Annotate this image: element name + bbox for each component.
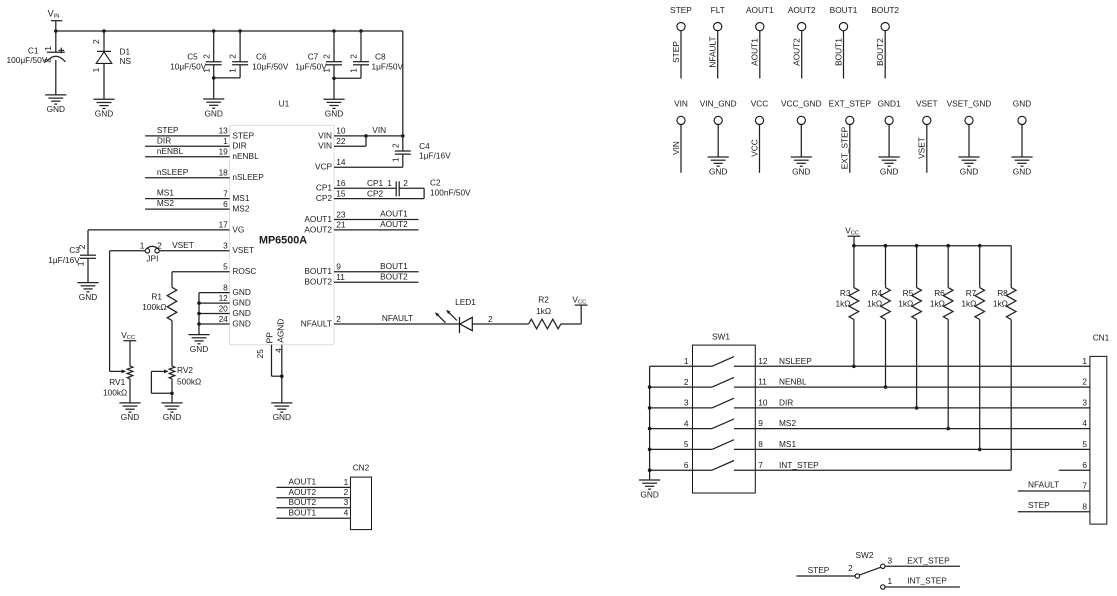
svg-text:2: 2 (488, 314, 493, 324)
svg-text:100kΩ: 100kΩ (103, 388, 127, 398)
svg-text:GND: GND (273, 412, 291, 422)
junction VIN pins (364, 134, 368, 138)
wire SW1 pin 3 left (650, 407, 693, 409)
junction C5/C6 bottoms (212, 76, 216, 80)
svg-text:4: 4 (344, 508, 349, 518)
svg-text:CN1: CN1 (1093, 333, 1110, 343)
svg-text:MS2: MS2 (157, 198, 174, 208)
junction VIN/D1 (102, 29, 106, 33)
svg-text:3: 3 (684, 398, 689, 408)
svg-text:BOUT1: BOUT1 (289, 507, 317, 517)
svg-text:3: 3 (888, 556, 893, 566)
svg-text:NS: NS (120, 56, 132, 66)
wire NFAULT to LED1 (334, 323, 460, 325)
capacitor C6 (239, 31, 241, 62)
svg-text:1: 1 (228, 68, 238, 73)
resistor R1 (167, 287, 177, 320)
junction VIN/C6 (238, 29, 242, 33)
wire SW1 pin 5 left (650, 448, 693, 450)
junction R4/row2 (884, 385, 888, 389)
ground GND (SW1) (639, 479, 660, 481)
svg-text:9: 9 (336, 262, 341, 272)
svg-text:7: 7 (223, 188, 228, 198)
junction GND pin 20 (197, 312, 201, 316)
svg-text:C1: C1 (28, 46, 39, 56)
svg-text:22: 22 (336, 136, 346, 146)
svg-text:VSET: VSET (172, 240, 194, 250)
junction VIN/C5 (212, 29, 216, 33)
wire nENBL stub to U1 (145, 156, 230, 158)
resistor R7 (979, 246, 981, 288)
wire AOUT1 stub (334, 219, 419, 221)
svg-text:1: 1 (91, 67, 101, 72)
svg-text:11: 11 (758, 377, 767, 387)
svg-text:1: 1 (349, 68, 359, 73)
junction R6/row4 (946, 427, 950, 431)
svg-text:21: 21 (336, 220, 346, 230)
svg-text:C2: C2 (430, 178, 441, 188)
svg-text:4: 4 (1082, 418, 1087, 428)
svg-text:GND: GND (95, 109, 113, 119)
svg-text:MS2: MS2 (232, 204, 249, 214)
svg-text:C7: C7 (308, 52, 319, 62)
svg-text:NFAULT: NFAULT (301, 318, 332, 328)
svg-text:VSET: VSET (916, 98, 938, 108)
svg-text:8: 8 (1082, 501, 1087, 511)
junction VCC bus x916 (915, 244, 919, 248)
svg-text:nSLEEP: nSLEEP (232, 172, 264, 182)
svg-text:500kΩ: 500kΩ (177, 377, 201, 387)
svg-text:D1: D1 (120, 46, 131, 56)
svg-text:STEP: STEP (232, 130, 254, 140)
svg-text:9: 9 (758, 418, 763, 428)
junction GND pin 12 (197, 301, 201, 305)
capacitor C7 (333, 31, 335, 62)
svg-text:6: 6 (684, 460, 689, 470)
svg-text:11: 11 (336, 272, 345, 282)
wire CN1 pin 6 stub (1059, 469, 1090, 471)
junction VCC bus x885 (884, 244, 888, 248)
wire MS1 stub to U1 (145, 198, 230, 200)
svg-text:NENBL: NENBL (779, 377, 807, 387)
svg-text:1kΩ: 1kΩ (867, 299, 882, 309)
svg-text:3: 3 (1082, 398, 1087, 408)
potentiometer RV2 (169, 366, 175, 379)
svg-text:GND1: GND1 (878, 98, 901, 108)
resistor R4 (885, 246, 887, 288)
IC U1 MP6500A body (230, 125, 334, 344)
svg-text:2: 2 (91, 39, 101, 44)
wire BOUT1 to CN2 (276, 517, 350, 519)
junction VCC bus x979 (978, 244, 982, 248)
wire row DIR to CN1 (755, 407, 1090, 409)
svg-text:16: 16 (336, 178, 346, 188)
ground GND (C7/C8) (323, 98, 344, 100)
wire nSLEEP stub to U1 (145, 177, 230, 179)
svg-text:1kΩ: 1kΩ (898, 299, 913, 309)
svg-text:CP1: CP1 (316, 183, 333, 193)
ground GND (C5/C6) (203, 98, 224, 100)
svg-text:C5: C5 (187, 52, 198, 62)
svg-text:1μF/50V: 1μF/50V (372, 62, 404, 72)
svg-text:100nF/50V: 100nF/50V (430, 188, 471, 198)
svg-text:GND: GND (640, 489, 658, 499)
wire VIN bus drop to U1 (402, 31, 404, 136)
svg-text:BOUT1: BOUT1 (304, 266, 332, 276)
svg-text:VSET: VSET (232, 245, 254, 255)
svg-text:1: 1 (344, 477, 349, 487)
svg-text:5: 5 (1082, 439, 1087, 449)
capacitor C4 (402, 136, 404, 151)
svg-text:24: 24 (219, 314, 229, 324)
svg-text:AOUT1: AOUT1 (304, 214, 332, 224)
wire U1 GND pin 24 (199, 323, 230, 325)
junction GND pin 24 (197, 322, 201, 326)
wire row MS2 to CN1 (755, 428, 1090, 430)
svg-text:VIN_GND: VIN_GND (700, 98, 737, 108)
svg-text:2: 2 (684, 377, 689, 387)
svg-text:1kΩ: 1kΩ (930, 299, 945, 309)
wire EXT_STEP from SW2 (885, 565, 960, 567)
capacitor C8 (360, 31, 362, 62)
wire ROSC to R1 (172, 271, 230, 273)
wire CP2 stub (334, 198, 424, 200)
svg-text:R1: R1 (151, 292, 162, 302)
switch SW1 body (693, 345, 756, 493)
svg-text:GND: GND (204, 108, 222, 118)
svg-text:1: 1 (888, 576, 893, 586)
resistor R2 (529, 319, 561, 329)
svg-text:1: 1 (223, 136, 228, 146)
svg-text:CP1: CP1 (367, 178, 384, 188)
svg-text:2: 2 (336, 314, 341, 324)
svg-text:10μF/50V: 10μF/50V (252, 62, 289, 72)
svg-text:STEP: STEP (670, 5, 692, 15)
svg-text:GND: GND (47, 104, 65, 114)
junction VIN/C4 (401, 134, 405, 138)
svg-text:10: 10 (758, 398, 768, 408)
junction VIN/C1 (54, 29, 58, 33)
svg-text:1μF/50V: 1μF/50V (295, 62, 327, 72)
svg-text:BOUT1: BOUT1 (380, 261, 408, 271)
junction R3/row1 (852, 365, 856, 369)
svg-text:AOUT2: AOUT2 (304, 224, 332, 234)
svg-text:1kΩ: 1kΩ (536, 306, 551, 316)
junction SW1 bus pin 5 (648, 448, 652, 452)
svg-text:1: 1 (43, 46, 53, 51)
svg-text:12: 12 (219, 293, 229, 303)
svg-text:BOUT2: BOUT2 (289, 497, 317, 507)
svg-text:STEP: STEP (157, 125, 179, 135)
ground GND (RV2) (161, 402, 182, 404)
svg-text:VIN: VIN (318, 130, 332, 140)
svg-text:BOUT1: BOUT1 (833, 38, 843, 66)
wire STEP stub to U1 (145, 135, 230, 137)
svg-text:2: 2 (1082, 377, 1087, 387)
svg-text:GND: GND (232, 298, 250, 308)
switch SW1 pole 3 (693, 407, 713, 409)
svg-text:LED1: LED1 (455, 297, 476, 307)
svg-text:BOUT2: BOUT2 (871, 5, 899, 15)
wire C6 bottom to C5 (214, 77, 240, 79)
junction VIN/C8 (359, 29, 363, 33)
svg-text:20: 20 (219, 303, 229, 313)
svg-text:R5: R5 (903, 288, 914, 298)
svg-text:15: 15 (336, 188, 346, 198)
svg-text:5: 5 (223, 262, 228, 272)
LED1 emission arrow 2 (437, 314, 446, 323)
svg-text:RV1: RV1 (109, 377, 125, 387)
ground GND (AGND) (271, 402, 292, 404)
ground GND (C1) (45, 94, 66, 96)
svg-text:INT_STEP: INT_STEP (907, 576, 947, 586)
wire C8 bottom to C7 (334, 77, 361, 79)
svg-text:6: 6 (223, 199, 228, 209)
svg-text:PP: PP (265, 332, 275, 344)
wire row NSLEEP to CN1 (755, 365, 1090, 367)
capacitor C5 (213, 31, 215, 62)
wire AOUT2 stub (334, 229, 419, 231)
svg-text:5: 5 (684, 439, 689, 449)
ground GND (TP GND1) (879, 156, 900, 158)
svg-text:AOUT1: AOUT1 (750, 38, 760, 66)
svg-text:AOUT2: AOUT2 (289, 487, 317, 497)
svg-text:12: 12 (758, 356, 768, 366)
svg-text:2: 2 (344, 487, 349, 497)
svg-text:1kΩ: 1kΩ (836, 299, 851, 309)
svg-text:17: 17 (219, 220, 229, 230)
svg-text:SW2: SW2 (856, 550, 874, 560)
svg-text:R3: R3 (840, 288, 851, 298)
svg-text:DIR: DIR (157, 135, 171, 145)
switch SW2 (855, 574, 859, 578)
svg-text:1μF/16V: 1μF/16V (48, 255, 80, 265)
svg-text:8: 8 (758, 439, 763, 449)
ground GND (D1) (93, 98, 114, 100)
svg-text:6: 6 (1082, 460, 1087, 470)
wire BOUT2 stub (334, 281, 419, 283)
svg-text:NFAULT: NFAULT (382, 313, 413, 323)
switch SW1 pole 5 (693, 448, 713, 450)
svg-text:AOUT1: AOUT1 (289, 477, 317, 487)
junction PP/AGND (280, 374, 284, 378)
svg-text:AOUT1: AOUT1 (746, 5, 774, 15)
svg-text:1: 1 (1082, 356, 1087, 366)
svg-text:R6: R6 (934, 288, 945, 298)
wire U1 PP pin (271, 345, 273, 377)
svg-text:NSLEEP: NSLEEP (779, 356, 812, 366)
svg-text:3: 3 (223, 241, 228, 251)
svg-text:1: 1 (390, 157, 400, 162)
svg-text:GND: GND (232, 308, 250, 318)
wire JP1 to U1 VSET (159, 250, 229, 252)
svg-text:AGND: AGND (275, 319, 285, 343)
svg-text:MP6500A: MP6500A (259, 235, 307, 247)
junction C7/C8 bottoms (332, 77, 336, 81)
svg-text:1kΩ: 1kΩ (961, 299, 976, 309)
ground GND (C3) (77, 282, 98, 284)
wire AOUT1 to CN2 (276, 486, 350, 488)
svg-text:GND: GND (232, 287, 250, 297)
svg-text:STEP: STEP (1028, 500, 1050, 510)
svg-text:100kΩ: 100kΩ (142, 302, 166, 312)
diode D1 (103, 31, 105, 51)
led LED1 (459, 317, 461, 333)
svg-text:AOUT2: AOUT2 (788, 5, 816, 15)
svg-text:BOUT1: BOUT1 (830, 5, 858, 15)
ground GND (TP VSET_GND) (958, 156, 979, 158)
junction SW1 bus pin 2 (648, 385, 652, 389)
svg-text:nSLEEP: nSLEEP (157, 167, 189, 177)
wire CN1 pin 7 stub (NFAULT) (1018, 490, 1090, 492)
junction SW1 bus pin 4 (648, 427, 652, 431)
ground GND (TP GND) (1011, 156, 1032, 158)
wire MS2 stub to U1 (145, 208, 230, 210)
svg-text:GND: GND (1013, 166, 1031, 176)
capacitor C1 (55, 31, 57, 52)
svg-text:10μF/50V: 10μF/50V (170, 62, 207, 72)
svg-text:GND: GND (325, 109, 343, 119)
svg-text:10: 10 (336, 126, 346, 136)
svg-text:VIN: VIN (372, 125, 386, 135)
junction VCC/R3 (852, 244, 856, 248)
wire U1 VCP to C4 (334, 166, 403, 168)
wire SW1 pin 1 left (650, 365, 693, 367)
svg-text:R8: R8 (997, 288, 1008, 298)
svg-text:STEP: STEP (671, 41, 681, 63)
wire U1 VIN pin 22 (334, 145, 366, 147)
svg-text:DIR: DIR (232, 141, 246, 151)
ground GND (TP VCC_GND) (791, 156, 812, 158)
wire U1 GND pins bus (198, 293, 200, 335)
wire U1 AGND pin (281, 345, 283, 403)
svg-text:BOUT2: BOUT2 (304, 277, 332, 287)
svg-text:GND: GND (190, 344, 208, 354)
svg-text:VCC_GND: VCC_GND (781, 98, 822, 108)
svg-text:GND: GND (1013, 98, 1031, 108)
svg-text:1μF/16V: 1μF/16V (419, 151, 451, 161)
svg-text:23: 23 (336, 209, 346, 219)
svg-text:BOUT2: BOUT2 (380, 271, 408, 281)
svg-text:NFAULT: NFAULT (1028, 480, 1059, 490)
svg-text:4: 4 (684, 418, 689, 428)
wire C2 to CP2 wrap (399, 187, 424, 189)
svg-text:R4: R4 (871, 288, 882, 298)
svg-text:VSET_GND: VSET_GND (947, 98, 992, 108)
svg-text:2: 2 (349, 54, 359, 59)
switch SW1 pole 4 (693, 428, 713, 430)
wire SW1 pin 2 left (650, 386, 693, 388)
potentiometer RV1 (127, 366, 133, 379)
svg-text:1: 1 (387, 178, 392, 188)
svg-text:INT_STEP: INT_STEP (779, 460, 819, 470)
svg-text:25: 25 (255, 349, 265, 359)
svg-text:100μF/50V: 100μF/50V (7, 55, 48, 65)
svg-text:18: 18 (219, 168, 229, 178)
svg-text:GND: GND (792, 166, 810, 176)
RV1 wiper arrow (110, 370, 123, 372)
svg-text:NFAULT: NFAULT (708, 36, 718, 67)
svg-text:VCC: VCC (751, 98, 769, 108)
wire VIN bus (56, 30, 403, 32)
svg-text:VCC: VCC (749, 139, 759, 157)
svg-text:JPI: JPI (146, 254, 158, 264)
svg-text:VSET: VSET (917, 137, 927, 159)
wire VSET left segment (110, 250, 146, 252)
svg-text:VCP: VCP (315, 162, 333, 172)
connector CN2 body (351, 477, 372, 529)
svg-text:2: 2 (322, 54, 332, 59)
wire DIR stub to U1 (145, 145, 230, 147)
wire U1 GND pin 20 (199, 313, 230, 315)
svg-text:BOUT2: BOUT2 (875, 38, 885, 66)
resistor R3 (853, 246, 855, 288)
svg-text:13: 13 (219, 126, 229, 136)
svg-text:GND: GND (232, 318, 250, 328)
junction SW1 bus pin 3 (648, 406, 652, 410)
wire SW1 pin 4 left (650, 428, 693, 430)
svg-text:VIN: VIN (671, 141, 681, 155)
svg-text:FLT: FLT (711, 5, 725, 15)
jumper JP1 (145, 249, 149, 253)
svg-text:1kΩ: 1kΩ (993, 299, 1008, 309)
svg-text:R2: R2 (538, 295, 549, 305)
svg-text:14: 14 (336, 157, 346, 167)
svg-text:2: 2 (228, 54, 238, 59)
svg-text:AOUT2: AOUT2 (380, 219, 408, 229)
svg-text:SW1: SW1 (712, 332, 730, 342)
svg-text:C4: C4 (419, 141, 430, 151)
svg-text:VG: VG (232, 224, 244, 234)
wire U1 VIN pin 10 (334, 135, 403, 137)
svg-text:7: 7 (1082, 481, 1087, 491)
svg-text:MS2: MS2 (779, 418, 796, 428)
svg-text:AOUT2: AOUT2 (792, 38, 802, 66)
svg-text:C6: C6 (256, 52, 267, 62)
svg-text:EXT_STEP: EXT_STEP (907, 555, 950, 565)
svg-text:VIN: VIN (674, 98, 688, 108)
svg-text:RV2: RV2 (177, 365, 193, 375)
svg-text:GND: GND (880, 166, 898, 176)
wire R2 to VCC (561, 323, 581, 325)
resistor R5 (916, 246, 918, 288)
svg-text:C8: C8 (375, 52, 386, 62)
svg-text:MS1: MS1 (779, 439, 796, 449)
svg-text:CP2: CP2 (367, 188, 384, 198)
svg-text:R7: R7 (966, 288, 977, 298)
wire U1 GND pin 12 (199, 302, 230, 304)
svg-text:GND: GND (79, 292, 97, 302)
svg-text:MS1: MS1 (157, 188, 174, 198)
wire row MS1 to CN1 (755, 448, 1090, 450)
RV2 wiper arrow (151, 370, 164, 372)
wire SW1 common bus (649, 366, 651, 480)
svg-text:DIR: DIR (779, 398, 793, 408)
ground GND (RV1) (119, 402, 140, 404)
svg-text:CP2: CP2 (316, 193, 333, 203)
wire CN1 pin 8 stub (STEP) (1018, 511, 1090, 513)
wire row NENBL to CN1 (755, 386, 1090, 388)
resistor R8 (1010, 246, 1012, 288)
svg-text:GND: GND (960, 166, 978, 176)
ground GND (U1 GND pins) (188, 334, 209, 336)
svg-text:EXT_STEP: EXT_STEP (829, 98, 872, 108)
junction VIN/C7 (332, 29, 336, 33)
svg-text:2: 2 (390, 143, 400, 148)
svg-text:MS1: MS1 (232, 193, 249, 203)
connector CN1 body (1090, 356, 1107, 524)
junction R5/row3 (915, 406, 919, 410)
